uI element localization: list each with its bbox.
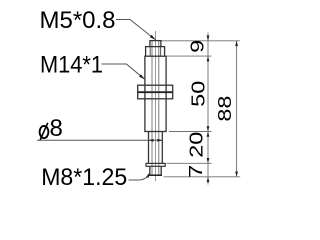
- flange band: [138, 91, 173, 93]
- svg-text:M14*1: M14*1: [40, 52, 103, 79]
- shaft right edge: [161, 132, 163, 164]
- stud left edge through collar: [149, 47, 151, 57]
- extension line E2: [167, 55, 212, 57]
- body M14 outline: [145, 56, 166, 131]
- arrow D1 down at E3: [207, 126, 210, 131]
- arrow D2 up at E1: [235, 41, 238, 46]
- extension line E1 top: [162, 40, 240, 42]
- svg-text:7: 7: [186, 165, 206, 178]
- dimension line D1: [207, 33, 209, 185]
- collar outline: [146, 47, 165, 57]
- arrow D1 up at E2: [207, 56, 210, 61]
- arrow D1 down at E1: [207, 36, 210, 41]
- svg-text:20: 20: [187, 132, 207, 158]
- svg-text:50: 50: [189, 81, 209, 107]
- svg-text:8: 8: [50, 115, 63, 142]
- thread minor line right: [158, 41, 160, 175]
- thread minor line left: [151, 41, 153, 175]
- svg-text:9: 9: [188, 40, 208, 53]
- dimension line D2: [236, 41, 238, 177]
- bottom end bar: [149, 174, 162, 176]
- leader dia8: [37, 139, 162, 142]
- flange nut outline: [138, 85, 173, 99]
- label dia8: [40, 115, 63, 142]
- washer outline: [146, 163, 165, 166]
- arrow D2 down at E5: [235, 172, 238, 177]
- arrow D1 down at E4: [207, 158, 210, 163]
- extension line E5 bottom: [164, 176, 241, 178]
- leader M14: [102, 64, 145, 79]
- arrow D1 up at E5: [207, 177, 210, 182]
- extension line E3: [169, 131, 212, 133]
- stud M5 outline: [150, 41, 161, 47]
- leader M5: [116, 20, 156, 41]
- leader M8: [129, 173, 150, 180]
- svg-text:M5*0.8: M5*0.8: [40, 7, 116, 34]
- threaded end M8 outline: [150, 166, 161, 175]
- stud right edge through collar: [160, 47, 162, 57]
- svg-text:M8*1.25: M8*1.25: [41, 164, 127, 191]
- arrow D1 up at E3: [207, 132, 210, 137]
- extension line E4: [167, 162, 212, 164]
- svg-text:88: 88: [215, 96, 235, 122]
- centerline: [155, 31, 157, 181]
- shaft left edge: [148, 132, 150, 164]
